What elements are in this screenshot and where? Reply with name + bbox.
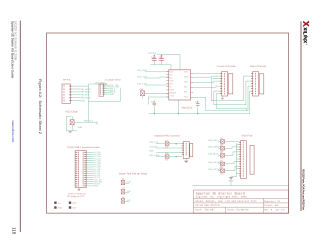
svg-text:VU: VU (58, 202, 61, 205)
svg-text:PS2_DATA: PS2_DATA (149, 154, 160, 157)
J14 net labels (149, 141, 160, 157)
svg-text:Spartan-3E Starter Kit Board U: Spartan-3E Starter Kit Board User Guide (10, 21, 14, 79)
svg-text:T1O: T1O (184, 81, 188, 84)
ground symbol (69, 131, 72, 134)
J9 pin body (222, 72, 228, 96)
J1 wires (72, 84, 108, 122)
svg-text:S3TLB 500 Starter: S3TLB 500 Starter (195, 204, 221, 207)
diode D1 body (121, 180, 124, 185)
J1 pins (69, 86, 71, 101)
capacitor C48 below IC right (196, 104, 199, 106)
wire vertical drop to clock circuit (88, 86, 90, 122)
U8 pin name text columns (170, 71, 189, 99)
R60 bottom stub (142, 96, 144, 99)
title block dividers (194, 198, 289, 213)
connector J4 body (99, 84, 104, 96)
R60 cross (141, 91, 145, 96)
J14 pin number marks (185, 143, 187, 155)
J16 pin number marks left (77, 152, 79, 186)
svg-text:PS2 Clock: PS2 Clock (66, 111, 79, 114)
svg-text:T1IN: T1IN (170, 95, 175, 98)
svg-text:Keyboard PS2 connector: Keyboard PS2 connector (155, 135, 181, 138)
svg-text:VGA_BLUE: VGA_BLUE (208, 153, 220, 156)
resistor R60 (141, 91, 145, 96)
svg-text:SPI_MOSI: SPI_MOSI (81, 91, 91, 94)
J14 ground symbol (184, 161, 188, 163)
D1 cross (121, 180, 124, 184)
J9 pins (220, 73, 222, 94)
svg-text:GND: GND (58, 207, 63, 210)
J16 body (75, 151, 86, 188)
VCC arrow above C47 (161, 55, 163, 57)
svg-text:R2OUT: R2OUT (170, 92, 177, 95)
J16 wires right (86, 152, 93, 186)
svg-text:VGA_HSYNC: VGA_HSYNC (208, 161, 221, 164)
J4 pin number marks (100, 85, 102, 95)
svg-text:GND: GND (109, 93, 114, 96)
title block outline (194, 190, 289, 213)
svg-text:C2-: C2- (170, 83, 173, 86)
J9 shield ground mark (221, 97, 223, 100)
svg-text:DTE_TXD: DTE_TXD (137, 82, 147, 85)
capacitor C47 (160, 59, 164, 61)
svg-text:R5: R5 (220, 167, 222, 170)
svg-text:2.5V: 2.5V (127, 190, 132, 193)
D2 cross (121, 190, 124, 194)
svg-text:1.2V: 1.2V (127, 199, 132, 202)
svg-text:D1: D1 (122, 177, 124, 180)
svg-text:VGA_RED: VGA_RED (208, 139, 218, 142)
svg-text:Diode Test Pull-up Wires: Diode Test Pull-up Wires (119, 173, 148, 176)
svg-text:R3: R3 (220, 151, 222, 154)
wires below IC to long runs (154, 100, 197, 114)
wire run 3 joint (246, 108, 248, 110)
svg-text:Max3232: Max3232 (182, 106, 193, 109)
svg-text:R60: R60 (140, 88, 143, 91)
svg-text:SPI Port: SPI Port (63, 79, 71, 82)
svg-text:Male DTE9 DB9: Male DTE9 DB9 (250, 65, 267, 68)
svg-text:3.3V: 3.3V (72, 207, 77, 210)
svg-text:R16: R16 (165, 152, 168, 155)
J16 left pins (75, 152, 77, 186)
svg-text:VCC: VCC (72, 202, 77, 205)
svg-text:GND: GND (78, 126, 83, 129)
ground bus (231, 143, 239, 176)
VCC arrow above C46 (154, 55, 156, 57)
page footer rule (rotated, left side) (19, 21, 21, 233)
svg-text:Female DCE9 DB9: Female DCE9 DB9 (217, 65, 236, 68)
J4 wires (89, 85, 121, 101)
header rule (rotated, right side) (300, 22, 302, 212)
svg-text:VCC: VCC (184, 71, 189, 74)
svg-text:VGA Port: VGA Port (242, 134, 253, 137)
J15 net labels (208, 139, 221, 171)
svg-text:118: 118 (12, 227, 17, 235)
legend square 4 (69, 206, 71, 208)
J4 net labels (109, 84, 119, 96)
svg-text:3.3V: 3.3V (127, 181, 132, 184)
D3 wire (125, 201, 129, 203)
wire end tick (96, 122, 98, 124)
junction dots (176, 143, 177, 157)
resistor R15 (165, 142, 169, 145)
svg-text:J4 Jumper Select: J4 Jumper Select (105, 79, 121, 82)
capacitor C49 below IC left (153, 103, 156, 105)
J14 wires (156, 144, 182, 157)
J1 pin number marks (63, 86, 65, 101)
resistor R4 (220, 160, 224, 169)
wire from component to node (75, 121, 98, 123)
schematic frame (47, 33, 289, 213)
ground symbol (229, 177, 233, 179)
svg-text:VGA_GREEN: VGA_GREEN (208, 146, 221, 149)
legend square 3 (69, 202, 71, 204)
svg-text:DC supply on VCC: DC supply on VCC (67, 195, 85, 198)
wire: VGA gnd drop to ground run (230, 179, 232, 186)
svg-text:Date: 03/08/06: Date: 03/08/06 (228, 209, 250, 212)
wires under caps (151, 55, 172, 70)
svg-text:C1-: C1- (170, 77, 173, 80)
svg-text:R4: R4 (220, 160, 222, 163)
J15 pins (239, 142, 241, 176)
wire arrowhead (105, 83, 107, 85)
J10 pins (251, 73, 253, 94)
component X1 body (70, 120, 74, 125)
J15 shell (250, 145, 254, 174)
resistor R5 (220, 167, 224, 176)
svg-text:R1I: R1I (184, 86, 187, 89)
J14 body (183, 142, 189, 159)
svg-text:SPI_SS_B: SPI_SS_B (81, 97, 91, 100)
svg-text:CONN CABLE Expansion Header: CONN CABLE Expansion Header (67, 146, 100, 149)
svg-text:270: 270 (220, 173, 223, 176)
svg-text:PS2_CLK: PS2_CLK (149, 141, 159, 144)
capacitor C46 (152, 59, 156, 61)
svg-text:RS-232 Ports, VGA Port, and PS: RS-232 Ports, VGA Port, and PS/2 Port (302, 169, 306, 210)
svg-text:VCC5V0: VCC5V0 (149, 145, 158, 148)
svg-text:Engineer: CC: Engineer: CC (264, 200, 280, 203)
J15 body (240, 141, 246, 179)
wire VCC to IC top (157, 55, 180, 70)
wire loop rectangle (66, 116, 77, 131)
R15 cross (165, 142, 168, 145)
svg-text:VGA_VSYNC: VGA_VSYNC (208, 168, 221, 171)
junction dot (178, 113, 179, 114)
J14 ground stub (185, 159, 187, 162)
J16 net labels (94, 151, 102, 188)
svg-text:Format: B##: Format: B## (264, 204, 279, 207)
wire run 2 (214, 104, 246, 106)
D3 cross (121, 199, 124, 203)
J15 pin number marks (242, 142, 244, 176)
svg-text:SPI_SCK: SPI_SCK (81, 94, 90, 97)
svg-text:R15: R15 (165, 139, 168, 142)
diode D3 body (121, 199, 124, 204)
svg-text:Sht 2/5: Sht 2/5 (276, 209, 286, 212)
svg-text:Figure 4-2: Schematic Sheet 2: Figure 4-2: Schematic Sheet 2 (38, 79, 42, 134)
svg-text:GND: GND (94, 185, 99, 188)
J10 shell (259, 74, 264, 94)
U8 left net labels (137, 69, 147, 85)
junction dot (197, 113, 198, 114)
resistor R2 (220, 144, 224, 153)
svg-text:UG230 (v1.0) March 9, 2006: UG230 (v1.0) March 9, 2006 (14, 21, 18, 60)
svg-text:270: 270 (165, 158, 168, 161)
svg-text:DCE_RXD: DCE_RXD (137, 69, 147, 72)
svg-text:C46+: C46+ (151, 56, 157, 59)
J9 wires from U8 (193, 74, 220, 109)
wire run 1 (211, 100, 243, 102)
svg-text:270: 270 (165, 145, 168, 148)
J16 right pins (84, 152, 86, 186)
J14 pins (182, 143, 184, 155)
component X1 cross marks (70, 120, 74, 125)
J16 pin number marks right (82, 152, 84, 186)
D1 wire (125, 182, 129, 184)
resistor R3 (220, 151, 224, 160)
svg-text:VCC3V3: VCC3V3 (148, 52, 157, 55)
J15 signal wires with resistors (218, 141, 239, 170)
junction dot (154, 113, 155, 114)
U8 left side wires (145, 72, 169, 105)
J9 shield stub (221, 96, 223, 98)
J14 shell (190, 144, 193, 157)
R16 cross (165, 155, 168, 158)
wire run 3b (206, 109, 249, 111)
resistor R16 (165, 155, 169, 158)
connector J1 body (62, 84, 71, 103)
J10 riser wires (243, 76, 251, 114)
Xilinx logo (rotated) (303, 21, 309, 46)
resistor R1 (220, 137, 224, 146)
J16 bottom stub (78, 188, 80, 191)
svg-text:R1: R1 (220, 137, 222, 140)
svg-text:Digilent Inc. Copyright 2005,: Digilent Inc. Copyright 2005, 2006 (196, 196, 248, 199)
svg-text:www.xilinx.com: www.xilinx.com (11, 120, 15, 143)
diode D2 body (121, 189, 124, 194)
svg-text:DCE_TXD: DCE_TXD (137, 75, 147, 78)
wire loop from J4 (89, 88, 121, 101)
J10 pin number marks (255, 73, 257, 94)
J9 shell (228, 74, 233, 94)
svg-text:SPI_MISO: SPI_MISO (81, 88, 91, 91)
legend square 1 (54, 202, 56, 204)
svg-text:T2IN: T2IN (170, 89, 175, 92)
wire run 4 (bottom long) (149, 113, 249, 115)
svg-text:RS232, RS232C, VGA, LCD and Pa: RS232, RS232C, VGA, LCD and Parallel Por… (195, 200, 257, 203)
svg-text:T2O: T2O (184, 96, 188, 99)
J10 pin body (253, 72, 259, 96)
svg-text:R2: R2 (220, 144, 222, 147)
D2 wire (125, 191, 129, 193)
U8 pin stubs (167, 72, 193, 98)
J9 pin number marks (224, 73, 226, 94)
svg-text:R2I: R2I (184, 91, 187, 94)
J1 net labels (81, 81, 106, 102)
IC U8 body (169, 70, 191, 100)
svg-text:GND: GND (184, 76, 189, 79)
svg-text:Doc#: 500-087: Doc#: 500-087 (195, 209, 215, 212)
J4 pins (103, 85, 105, 95)
wire run 3 (216, 107, 246, 109)
svg-text:PS2_CLK: PS2_CLK (84, 120, 94, 123)
svg-text:GND: GND (81, 99, 86, 102)
svg-text:Rev: E: Rev: E (264, 209, 273, 212)
wire from U8 pin to bus (193, 97, 206, 110)
legend square 2 (54, 206, 56, 208)
svg-text:GND: GND (149, 150, 154, 153)
wire: long ground run above title block (192, 185, 288, 187)
vertical stubs of X1 (71, 116, 73, 119)
